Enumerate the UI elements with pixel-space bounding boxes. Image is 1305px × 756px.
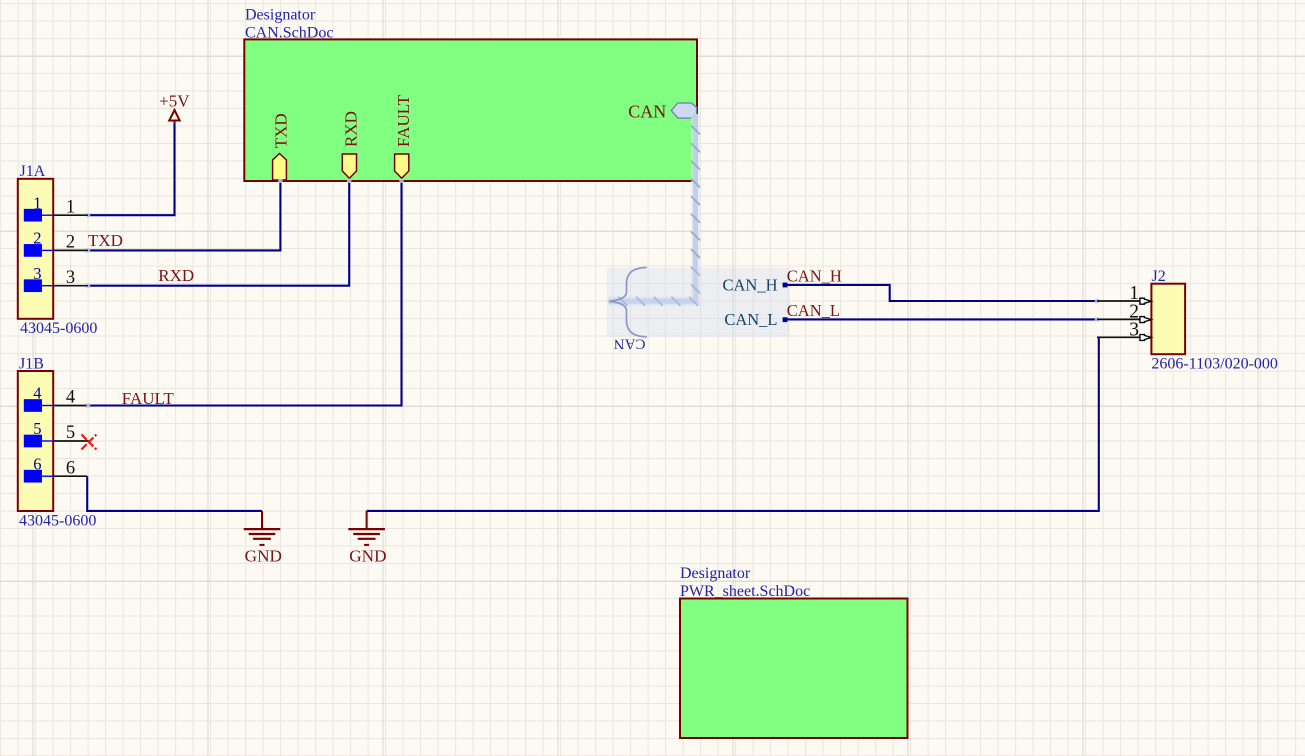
- wire CAN_L to J2 pin2: [785, 318, 1098, 320]
- svg-text:FAULT: FAULT: [394, 94, 413, 147]
- ground GND1: [244, 511, 282, 565]
- wire FAULT (J1B pin4 to sheet entry): [87, 181, 402, 406]
- harness connector CAN: [607, 268, 790, 352]
- connector J1A: [18, 163, 98, 337]
- wire J1A pin1 to +5V: [88, 124, 175, 215]
- svg-text:Designator: Designator: [680, 565, 751, 582]
- sheet entry TXD: [272, 113, 291, 180]
- svg-text:6: 6: [66, 458, 75, 478]
- svg-text:2: 2: [33, 229, 41, 248]
- J2 pin 3: [1097, 319, 1151, 340]
- svg-text:CAN.SchDoc: CAN.SchDoc: [245, 24, 333, 41]
- svg-text:4: 4: [66, 388, 75, 408]
- svg-text:CAN_L: CAN_L: [787, 301, 840, 320]
- svg-text:Designator: Designator: [245, 7, 316, 24]
- harness CAN: [608, 114, 700, 306]
- sheet symbol CAN.SchDoc: [244, 7, 697, 182]
- connector J2: [1151, 268, 1278, 373]
- sheet symbol PWR_sheet.SchDoc: [680, 565, 908, 738]
- J1A pin 3: [24, 264, 88, 292]
- J1B pin 5: [24, 419, 89, 447]
- wire J1B pin6 to GND: [87, 476, 262, 511]
- no-connect X on J1B pin 5: [81, 435, 96, 450]
- svg-text:5: 5: [66, 423, 75, 443]
- svg-text:43045-0600: 43045-0600: [19, 513, 96, 530]
- J1B pin 6: [24, 454, 87, 482]
- svg-text:CAN_L: CAN_L: [724, 310, 777, 329]
- svg-text:5: 5: [33, 419, 41, 438]
- wire GND to J2 pin3: [367, 337, 1099, 511]
- svg-text:CAN_H: CAN_H: [722, 275, 777, 294]
- svg-text:GND: GND: [245, 546, 282, 565]
- sheet entry FAULT: [394, 94, 413, 178]
- svg-text:RXD: RXD: [342, 111, 361, 147]
- J2 pin 2: [1097, 301, 1151, 322]
- wire RXD (J1A pin3 to sheet entry): [88, 181, 349, 286]
- svg-text:3: 3: [33, 264, 41, 283]
- svg-text:1: 1: [66, 197, 75, 217]
- wire TXD (J1A pin2 to sheet entry): [88, 181, 281, 251]
- svg-text:RXD: RXD: [158, 266, 194, 285]
- svg-text:TXD: TXD: [88, 231, 123, 250]
- harness port CAN: [628, 102, 696, 122]
- svg-text:J1A: J1A: [20, 163, 46, 180]
- J1A pin 1: [24, 193, 88, 221]
- ground GND2: [348, 511, 386, 565]
- wire CAN_H to J2 pin1: [785, 285, 1098, 301]
- svg-text:PWR_sheet.SchDoc: PWR_sheet.SchDoc: [680, 583, 810, 600]
- connector J1B: [18, 356, 97, 530]
- svg-text:FAULT: FAULT: [122, 389, 175, 408]
- J2 pin 1: [1097, 283, 1151, 304]
- J1A pin 2: [24, 229, 88, 257]
- J1B pin 4: [24, 384, 87, 412]
- svg-text:TXD: TXD: [272, 113, 291, 148]
- wire end markers: [86, 179, 1099, 408]
- svg-text:J1B: J1B: [19, 356, 44, 373]
- power +5V: [159, 91, 190, 125]
- svg-text:CAN: CAN: [628, 102, 666, 122]
- sheet entry RXD: [342, 111, 361, 178]
- svg-text:CAN: CAN: [614, 336, 646, 352]
- svg-text:+5V: +5V: [159, 91, 190, 110]
- svg-text:1: 1: [33, 193, 41, 212]
- svg-text:J2: J2: [1152, 268, 1166, 285]
- svg-text:3: 3: [1129, 319, 1139, 340]
- svg-text:2: 2: [66, 233, 75, 253]
- svg-text:GND: GND: [349, 546, 386, 565]
- svg-text:6: 6: [33, 454, 41, 473]
- svg-text:2606-1103/020-000: 2606-1103/020-000: [1151, 356, 1278, 373]
- svg-text:3: 3: [66, 268, 75, 288]
- svg-text:4: 4: [33, 384, 41, 403]
- svg-text:CAN_H: CAN_H: [787, 267, 842, 286]
- svg-text:43045-0600: 43045-0600: [20, 320, 97, 337]
